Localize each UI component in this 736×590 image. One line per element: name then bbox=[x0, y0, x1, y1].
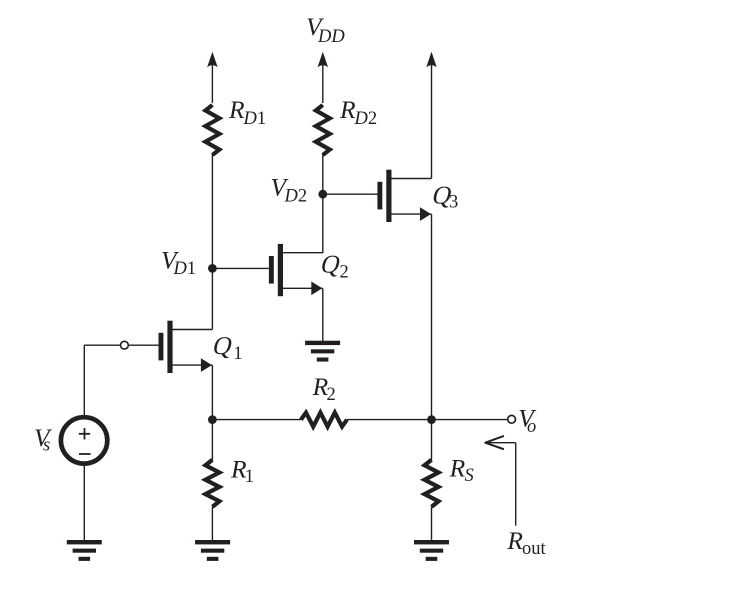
svg-text:D1: D1 bbox=[243, 109, 267, 129]
svg-text:R: R bbox=[339, 95, 356, 124]
svg-text:DD: DD bbox=[317, 27, 345, 47]
svg-text:out: out bbox=[522, 539, 547, 559]
svg-text:R: R bbox=[449, 453, 466, 482]
svg-text:2: 2 bbox=[327, 385, 336, 405]
svg-text:D2: D2 bbox=[354, 109, 378, 129]
svg-text:R: R bbox=[506, 526, 523, 555]
svg-text:Q: Q bbox=[210, 331, 236, 360]
svg-text:o: o bbox=[527, 417, 536, 437]
svg-text:3: 3 bbox=[449, 193, 458, 213]
svg-text:s: s bbox=[43, 435, 50, 455]
svg-text:S: S bbox=[465, 466, 474, 486]
svg-text:R: R bbox=[228, 95, 245, 124]
svg-text:1: 1 bbox=[233, 344, 242, 364]
svg-text:1: 1 bbox=[245, 467, 254, 487]
svg-text:D2: D2 bbox=[284, 186, 308, 206]
svg-text:2: 2 bbox=[340, 263, 349, 283]
svg-text:D1: D1 bbox=[173, 259, 197, 279]
